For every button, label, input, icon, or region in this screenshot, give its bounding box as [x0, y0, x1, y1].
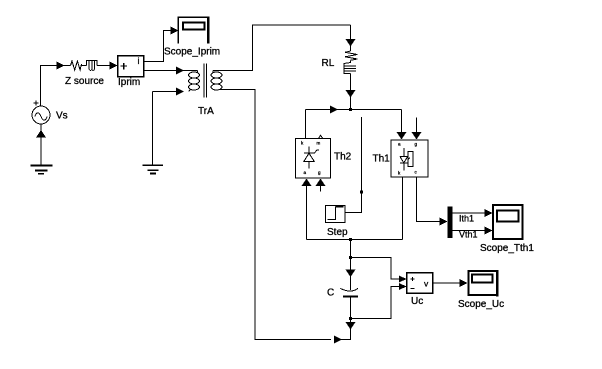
AC rail node — [306, 109, 402, 111]
arrow down at RL bottom — [346, 90, 356, 98]
wire rail down to Th2 k — [305, 110, 307, 140]
rail between Th2 a and Th1 k — [307, 239, 403, 241]
resistor R of RL — [345, 51, 358, 60]
svg-text:Z source: Z source — [65, 76, 104, 87]
arrow into scope input 1 — [484, 209, 492, 217]
wire junction down to capacitor C — [350, 240, 352, 271]
wire into Th1 g — [416, 118, 418, 133]
arrow into TrA bottom-left — [176, 88, 184, 96]
unconnected m port marker of Th2 — [319, 135, 323, 138]
wire Vs top to Z source — [41, 66, 58, 107]
wire Uc output to Scope_Uc — [433, 282, 460, 284]
wire lower junction to Uc minus input — [351, 287, 400, 319]
Z source inductor — [87, 61, 98, 71]
arrow up into Vs — [36, 130, 46, 138]
pin + of Iprim — [121, 63, 128, 70]
junction dot to Uc plus tap — [349, 256, 352, 259]
branch RL vertical — [350, 25, 352, 40]
arrow into mux — [439, 218, 447, 226]
svg-text:Ith1: Ith1 — [459, 214, 474, 224]
AC source Vs — [32, 101, 50, 125]
stub wire Th2 g — [320, 185, 322, 192]
Z source resistor — [71, 61, 82, 70]
thyristor symbol inside Th1 — [400, 148, 413, 171]
arrow on bottom rail — [334, 336, 342, 344]
step source Step — [326, 206, 346, 223]
wire Step output up to gates — [346, 117, 362, 212]
wire Iprim i output to Scope_Iprim — [144, 31, 172, 62]
capacitor C — [340, 288, 358, 296]
arrow down below C — [346, 322, 356, 330]
svg-text:Th2: Th2 — [334, 152, 352, 163]
wire Vs bottom to ground — [40, 124, 42, 165]
wire TrA secondary bottom-left to ground — [153, 92, 178, 166]
wire C bottom to lower junction — [350, 297, 352, 323]
thyristor block Th1 — [391, 140, 428, 177]
voltage measurement Uc — [407, 273, 433, 294]
arrow on AC rail — [330, 106, 338, 114]
arrow into Uc minus — [399, 283, 407, 290]
svg-text:Uc: Uc — [411, 296, 423, 307]
thyristor block Th2 — [296, 135, 331, 178]
svg-text:m: m — [317, 141, 321, 146]
wire TrA secondary bottom-right down to bottom rail — [220, 90, 331, 340]
inductor L of RL — [344, 60, 356, 73]
svg-text:Th1: Th1 — [373, 154, 391, 165]
wire Iprim output to transformer TrA — [144, 70, 178, 72]
thyristor symbol inside Th2 — [304, 147, 319, 169]
wire mux out2 to scope — [453, 230, 485, 232]
svg-text:Vth1: Vth1 — [459, 230, 478, 240]
wire Th2 a to bottom rail — [306, 185, 308, 240]
svg-text:TrA: TrA — [198, 106, 214, 117]
arrow up into Th2 a — [302, 179, 312, 187]
wire Th1 k down to bottom rail — [402, 177, 404, 240]
arrow into Th1 a — [397, 132, 407, 140]
wire resistor to inductor — [82, 65, 87, 67]
svg-text:Iprim: Iprim — [118, 77, 140, 88]
svg-text:Scope_Iprim: Scope_Iprim — [164, 47, 220, 58]
arrow into Th1 g — [412, 132, 422, 140]
ground under TrA — [143, 165, 164, 173]
arrow into TrA primary top — [176, 67, 184, 75]
svg-text:C: C — [327, 288, 334, 299]
wire rail down into Th1 a — [401, 110, 403, 134]
junction dot on gate wire — [360, 191, 363, 194]
svg-text:Vs: Vs — [56, 111, 68, 122]
svg-text:i: i — [138, 56, 140, 66]
svg-text:Scope_Uc: Scope_Uc — [458, 299, 504, 310]
arrow into Scope_Uc — [459, 279, 467, 287]
wire inductor to Iprim — [97, 65, 110, 67]
arrow on wire toward Z source — [57, 62, 65, 70]
mux Mux — [447, 207, 452, 238]
scope Scope_Uc — [468, 270, 497, 296]
junction dot below C — [349, 317, 352, 320]
pin + of Uc — [411, 277, 415, 281]
scope Scope_Iprim — [178, 17, 208, 44]
arrow down into RL — [346, 39, 356, 47]
wire tap to Uc plus input — [351, 258, 400, 280]
wire Th1 m output to mux — [417, 177, 441, 222]
svg-text:Scope_Tth1: Scope_Tth1 — [480, 243, 534, 254]
wire RL bottom to AC rail — [350, 74, 352, 91]
arrow down into C — [346, 270, 356, 278]
wire mux out1 to scope — [453, 212, 485, 214]
junction dot on lower rail — [349, 238, 352, 241]
ground under Vs — [30, 165, 52, 173]
wire arrow to resistor — [63, 65, 71, 67]
arrow up into Th2 g — [316, 179, 326, 187]
pin - of Uc — [411, 288, 415, 290]
scope Scope_Tth1 — [493, 205, 523, 239]
svg-text:RL: RL — [322, 58, 335, 69]
current measurement Iprim — [118, 56, 144, 77]
arrow into Uc plus — [399, 276, 407, 283]
arrow into Scope_Iprim — [170, 27, 178, 35]
svg-text:Step: Step — [327, 227, 348, 238]
arrow into Iprim — [110, 62, 118, 70]
transformer TrA — [189, 63, 223, 97]
junction dot RL-rail — [349, 108, 352, 111]
wire TrA secondary top-right to RL top — [213, 25, 351, 71]
arrow into scope input 2 — [484, 227, 492, 235]
wire bottom rail to C branch — [340, 329, 351, 340]
